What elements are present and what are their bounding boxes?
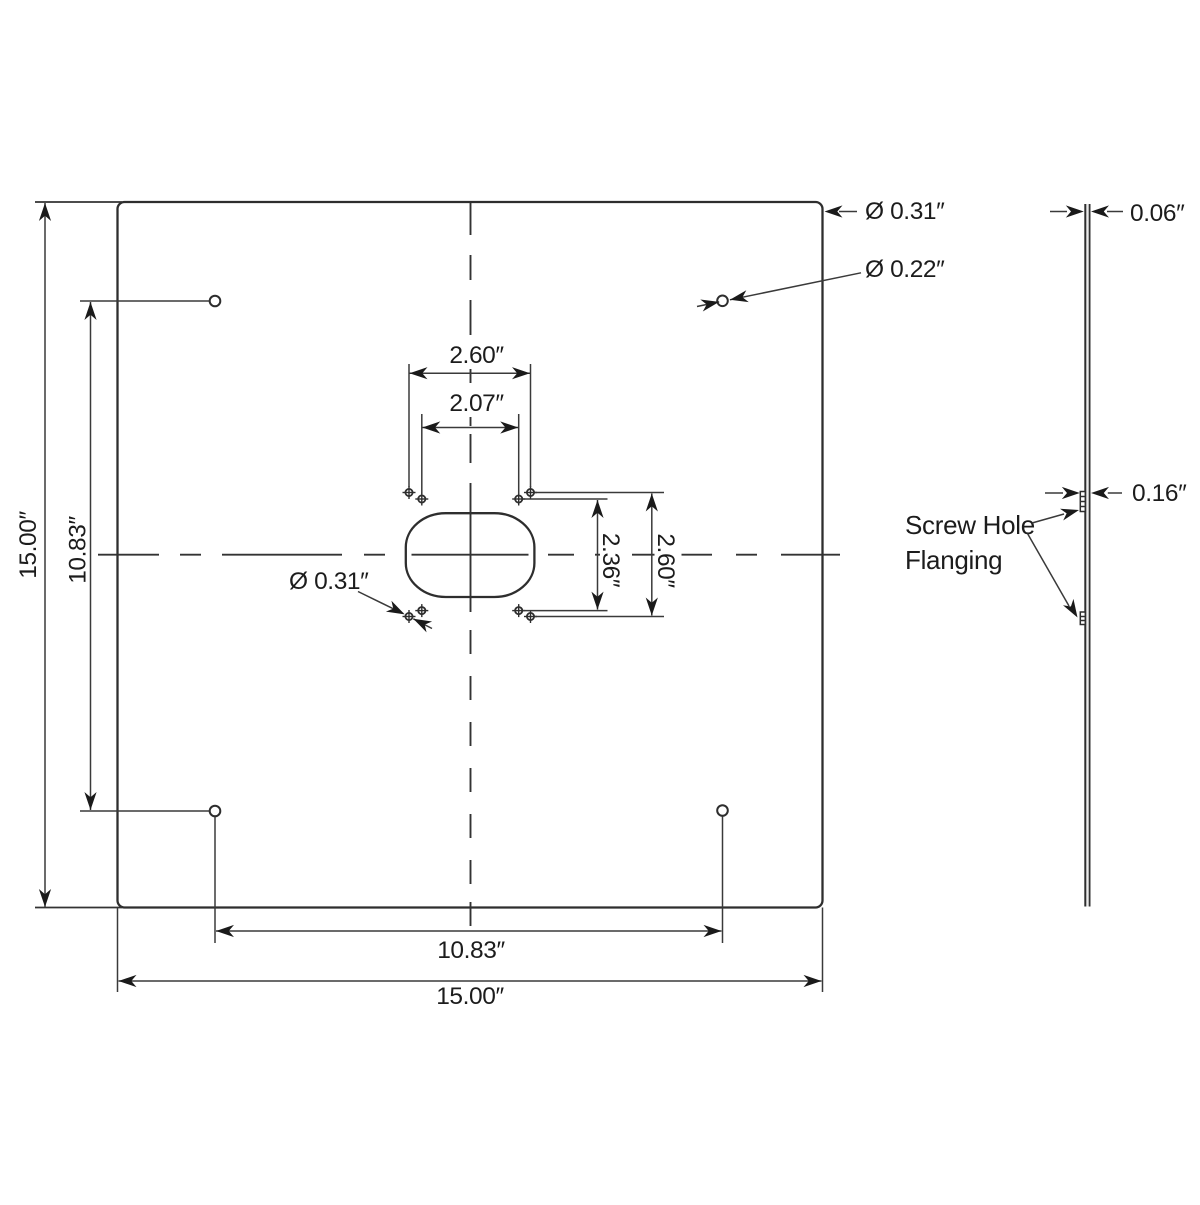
svg-text:10.83″: 10.83″ — [437, 937, 505, 964]
hole bottom-left corner — [210, 806, 221, 817]
hole outer TR — [524, 486, 537, 499]
svg-text:0.06″: 0.06″ — [1130, 200, 1185, 227]
svg-text:10.83″: 10.83″ — [65, 515, 92, 583]
wire left edge lower extension — [117, 908, 119, 993]
dimension 10.83 bottom — [216, 925, 722, 964]
dimension 10.83 vertical left — [65, 301, 210, 811]
wire ext from inner BR hole — [523, 610, 608, 612]
dimension 2.36 right — [591, 500, 627, 610]
dimension 15.00 vertical left — [15, 203, 51, 907]
hole outer TL — [403, 486, 416, 499]
svg-text:2.60″: 2.60″ — [449, 342, 504, 369]
side view plate bar — [1085, 204, 1089, 907]
svg-text:Ø 0.22″: Ø 0.22″ — [865, 256, 945, 283]
label D0.31 center hole — [289, 568, 432, 632]
hole outer BR — [524, 610, 537, 623]
dimension 15.00 bottom — [119, 975, 822, 1010]
dimension 2.07 top — [422, 390, 519, 494]
svg-text:Ø 0.31″: Ø 0.31″ — [289, 568, 369, 595]
dimension 2.60 top — [409, 342, 531, 487]
wire ext from outer BR hole — [535, 616, 664, 618]
label Screw Hole Flanging — [905, 504, 1083, 621]
wire BR hole extension down — [722, 817, 724, 944]
centerline horizontal — [98, 554, 840, 556]
hole inner BL — [415, 604, 428, 617]
svg-text:2.60″: 2.60″ — [652, 533, 679, 588]
centerline vertical — [470, 203, 472, 926]
hole inner TR — [512, 493, 525, 506]
label D0.22 top-right hole — [697, 256, 945, 311]
svg-text:0.16″: 0.16″ — [1132, 480, 1187, 507]
hole inner TL — [415, 493, 428, 506]
obround center cutout — [406, 513, 535, 597]
dimension 0.16 side — [1045, 480, 1187, 507]
flange upper (side view) — [1080, 492, 1085, 512]
hole bottom-right corner — [717, 805, 728, 816]
wire ext from inner TR hole — [523, 498, 608, 500]
wire right edge lower extension — [822, 908, 824, 993]
svg-text:Ø 0.31″: Ø 0.31″ — [865, 198, 945, 225]
small holes group — [403, 486, 538, 623]
hole inner BR — [512, 604, 525, 617]
plate outline (front view) — [118, 202, 823, 908]
dimension 2.60 right — [646, 494, 682, 616]
dimension 0.06 side top — [1050, 200, 1185, 227]
wire top extension line — [35, 201, 122, 203]
wire BL hole extension down — [214, 817, 216, 944]
svg-text:2.36″: 2.36″ — [597, 533, 624, 588]
svg-text:15.00″: 15.00″ — [15, 510, 42, 578]
svg-text:Screw Hole: Screw Hole — [905, 510, 1035, 540]
hole top-left corner — [210, 296, 221, 307]
flange lower (side view) — [1080, 612, 1085, 625]
wire bottom extension line — [35, 907, 122, 909]
label D0.31 top-right corner — [825, 198, 946, 225]
svg-text:Flanging: Flanging — [905, 545, 1002, 575]
hole outer BL — [403, 610, 416, 623]
svg-text:2.07″: 2.07″ — [449, 390, 504, 417]
hole top-right corner — [717, 296, 728, 307]
wire ext from outer TR hole — [535, 492, 664, 494]
svg-text:15.00″: 15.00″ — [436, 983, 504, 1010]
